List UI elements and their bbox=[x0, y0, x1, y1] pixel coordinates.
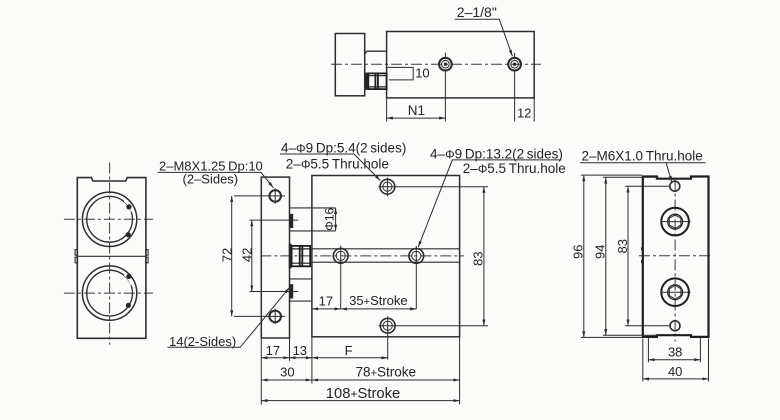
piston rod lines bbox=[312, 249, 460, 262]
front view centerline bbox=[260, 255, 464, 257]
svg-text:2–Φ5.5 Thru.hole: 2–Φ5.5 Thru.hole bbox=[463, 161, 566, 176]
screw hole B2 (on centerline) bbox=[409, 246, 424, 309]
M6 thread hole top (right view) bbox=[670, 181, 680, 191]
front view bottom extension lines bbox=[261, 337, 459, 405]
left view body outline with top notch bbox=[77, 178, 146, 339]
port P2 (top view) bbox=[508, 53, 521, 122]
screw hole B1 (on centerline) bbox=[333, 246, 348, 309]
svg-text:10: 10 bbox=[415, 66, 429, 81]
top view rod washer bbox=[365, 73, 368, 90]
bore bottom (left view) bbox=[82, 266, 136, 320]
hex nut (front view) bbox=[292, 246, 311, 266]
right view clip jogs bbox=[641, 247, 709, 263]
rod nut washer (front view) bbox=[289, 244, 292, 269]
counterbore top (right view) bbox=[661, 208, 691, 236]
left view vertical centerline bbox=[109, 163, 111, 345]
svg-text:14(2-Sides): 14(2-Sides) bbox=[169, 334, 236, 349]
label 4-phi9 Dp:13.2(2 sides) bbox=[418, 147, 566, 248]
dim 83 (right view) bbox=[615, 186, 670, 326]
guide rod stub bottom bbox=[290, 284, 294, 298]
label 2-1/8 port bbox=[455, 4, 513, 56]
plate hole bottom (M8 thread) bbox=[269, 309, 281, 324]
svg-text:Φ16: Φ16 bbox=[322, 208, 336, 231]
left view parting line bbox=[77, 255, 146, 257]
dim 94 bbox=[593, 177, 659, 335]
svg-text:94: 94 bbox=[593, 245, 608, 259]
svg-text:108+Stroke: 108+Stroke bbox=[326, 386, 400, 402]
bore top (left view) bbox=[82, 192, 136, 246]
svg-text:12: 12 bbox=[517, 105, 531, 120]
svg-text:2–Φ5.5 Thru.hole: 2–Φ5.5 Thru.hole bbox=[286, 157, 389, 172]
label 2-M8X1.25 Dp:10 (2-Sides) bbox=[158, 159, 274, 188]
front view body outline bbox=[312, 176, 460, 337]
label 2-M6X1.0 Thru.hole bbox=[580, 148, 705, 182]
svg-text:96: 96 bbox=[570, 245, 585, 259]
guide rod boss bottom edges bbox=[290, 279, 312, 301]
guide rod stub top bbox=[290, 214, 294, 228]
front view end plate bbox=[261, 177, 289, 338]
left view bore centerline bottom bbox=[64, 292, 153, 294]
dim 83 (front view) bbox=[470, 187, 485, 326]
guide rod boss top edges bbox=[290, 208, 336, 231]
svg-text:2–M6X1.0 Thru.hole: 2–M6X1.0 Thru.hole bbox=[582, 148, 703, 163]
right view horizontal centerline bbox=[639, 255, 712, 257]
counterbore hole bottom (front view) bbox=[379, 317, 488, 360]
dim phi16 bbox=[322, 208, 336, 231]
svg-text:83: 83 bbox=[470, 251, 485, 265]
svg-text:4–Φ9 Dp:5.4(2 sides): 4–Φ9 Dp:5.4(2 sides) bbox=[281, 141, 406, 156]
dim 72 bbox=[219, 196, 285, 317]
top view end plate bbox=[335, 34, 364, 96]
svg-text:17: 17 bbox=[319, 294, 333, 309]
svg-text:42: 42 bbox=[239, 248, 254, 262]
left view bore centerline top bbox=[64, 218, 153, 220]
svg-text:40: 40 bbox=[668, 364, 682, 379]
svg-text:35+Stroke: 35+Stroke bbox=[349, 293, 407, 308]
svg-text:13: 13 bbox=[293, 343, 307, 358]
plate hole top (M8 thread) bbox=[269, 188, 281, 204]
right view vertical centerline bbox=[674, 180, 676, 342]
svg-text:F: F bbox=[345, 343, 353, 358]
dim 40 bbox=[643, 339, 709, 382]
left view clip tab right bbox=[146, 250, 148, 263]
port P1 (top view) bbox=[439, 53, 452, 122]
label 14(2-Sides) bbox=[168, 288, 290, 349]
svg-text:83: 83 bbox=[615, 239, 630, 253]
label 4-phi9 Dp:5.4(2 sides) bbox=[280, 141, 406, 181]
top view rod boss edge bbox=[365, 51, 387, 54]
svg-text:78+Stroke: 78+Stroke bbox=[356, 364, 417, 379]
counterbore hole top (front view) bbox=[378, 178, 488, 197]
svg-text:72: 72 bbox=[219, 248, 234, 262]
dim N1 bbox=[387, 103, 446, 118]
dim row 108+Stroke bbox=[261, 386, 459, 402]
dim 38 bbox=[648, 338, 700, 362]
dim 96 bbox=[570, 175, 642, 337]
svg-text:4–Φ9 Dp:13.2(2 sides): 4–Φ9 Dp:13.2(2 sides) bbox=[430, 147, 563, 162]
dim 10 (top view) bbox=[387, 66, 430, 81]
dim row 30 | 78+Stroke bbox=[261, 364, 459, 380]
right view outline bbox=[643, 177, 709, 337]
svg-text:2–1/8": 2–1/8" bbox=[457, 4, 497, 20]
top view hex nut bbox=[368, 73, 386, 89]
counterbore bottom (right view) bbox=[661, 278, 691, 306]
svg-text:(2–Sides): (2–Sides) bbox=[183, 171, 239, 186]
top view centerline bbox=[331, 63, 541, 65]
dim 42 bbox=[239, 220, 298, 291]
dim row 17|13|F bbox=[261, 343, 387, 358]
M6 thread hole bottom (right view) bbox=[670, 321, 680, 331]
svg-text:N1: N1 bbox=[408, 103, 425, 118]
svg-text:30: 30 bbox=[280, 365, 294, 380]
dim 17 / 35+Stroke line bbox=[312, 293, 416, 309]
top view extension lines bbox=[387, 98, 535, 122]
left view clip tab left bbox=[75, 250, 77, 263]
top view body outline bbox=[387, 32, 535, 98]
svg-text:17: 17 bbox=[266, 343, 280, 358]
svg-text:38: 38 bbox=[668, 345, 682, 360]
